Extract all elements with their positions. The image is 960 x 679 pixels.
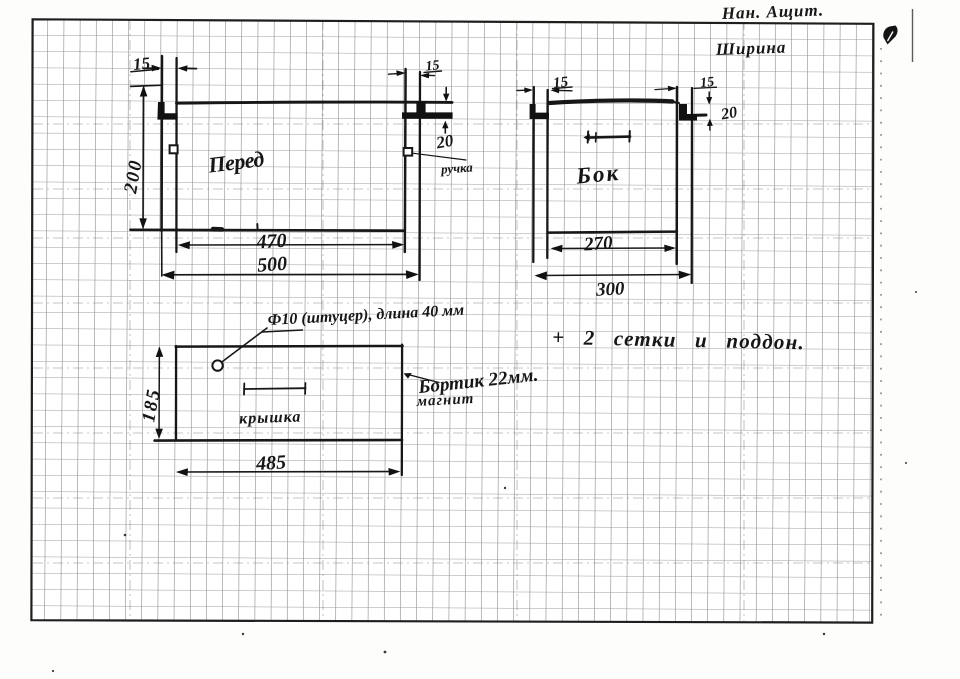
svg-text:15: 15	[425, 58, 440, 74]
svg-text:20: 20	[719, 104, 739, 124]
svg-text:500: 500	[256, 253, 287, 277]
svg-text:485: 485	[255, 451, 287, 475]
svg-text:15: 15	[552, 74, 569, 92]
svg-text:ручка: ручка	[440, 159, 474, 176]
svg-text:крышка: крышка	[239, 408, 302, 427]
svg-text:Нан. Ащит.: Нан. Ащит.	[720, 0, 824, 23]
svg-text:270: 270	[582, 232, 613, 255]
svg-text:Ширина: Ширина	[714, 38, 786, 59]
svg-text:20: 20	[434, 131, 456, 153]
svg-text:15: 15	[699, 75, 714, 91]
svg-text:15: 15	[132, 53, 151, 74]
svg-text:300: 300	[594, 278, 625, 301]
svg-text:470: 470	[255, 230, 287, 254]
svg-text:магнит: магнит	[415, 391, 474, 410]
svg-text:Бок: Бок	[574, 160, 621, 189]
